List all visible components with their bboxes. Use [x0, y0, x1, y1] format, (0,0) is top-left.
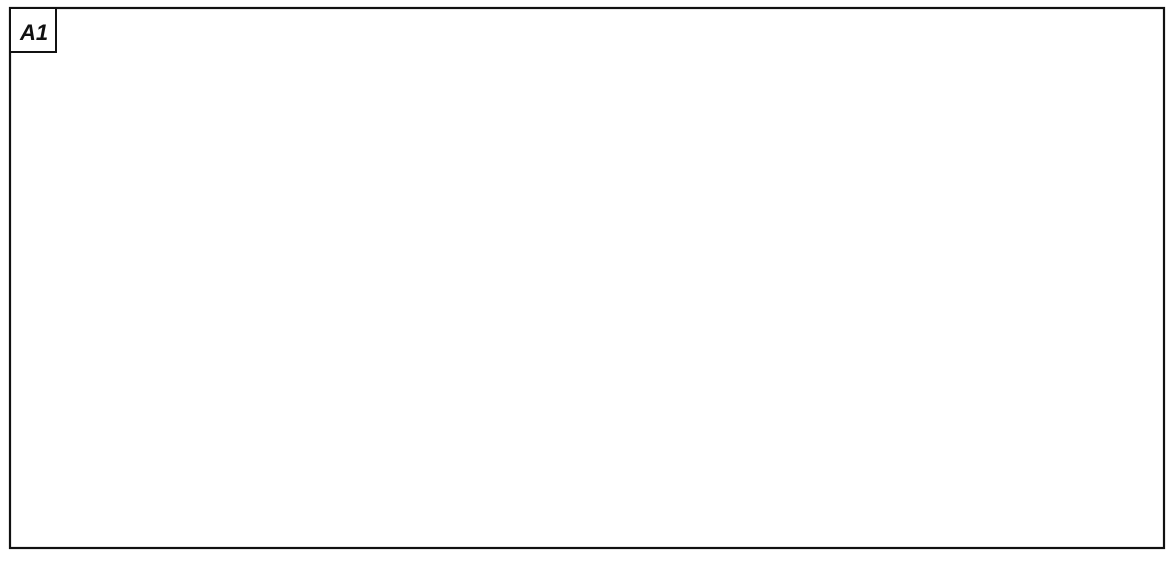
svg-text:A1: A1	[19, 20, 48, 45]
